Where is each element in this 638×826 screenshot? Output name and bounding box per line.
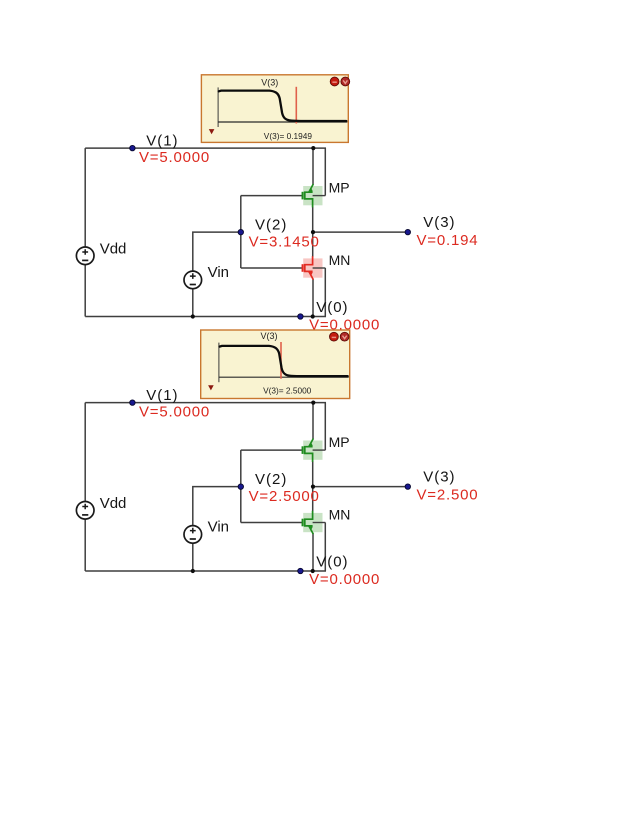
svg-text:Vdd: Vdd: [100, 240, 127, 257]
svg-text:MP: MP: [329, 180, 350, 196]
svg-text:V(3)= 2.5000: V(3)= 2.5000: [263, 386, 312, 396]
transistor MP (PMOS) c1: [303, 184, 326, 207]
wire to MP gate c1: [241, 195, 303, 197]
junction Vin bottom c2: [191, 569, 195, 573]
wire Vin to gate junction c2: [193, 487, 241, 526]
wire V(1) top rail c2: [85, 402, 326, 404]
svg-text:V(3)= 0.1949: V(3)= 0.1949: [264, 131, 313, 141]
svg-text:V(3): V(3): [423, 468, 455, 485]
plot y-axis: [218, 343, 220, 383]
junction Vin bottom c1: [191, 314, 195, 318]
plot y-axis: [217, 87, 219, 127]
wire MN source to bottom rail c1: [312, 279, 314, 317]
plot cursor line: [280, 342, 282, 379]
plot waveform curve V(3): [220, 346, 348, 376]
wire to MP gate c2: [241, 449, 303, 451]
plot x-axis: [218, 121, 347, 123]
svg-text:V=2.500: V=2.500: [417, 487, 479, 504]
wire MP drain to MN drain c2: [312, 461, 314, 511]
svg-text:V=3.1450: V=3.1450: [249, 233, 320, 250]
wire MP drain to MN drain c1: [312, 207, 314, 257]
svg-text:V(1): V(1): [146, 387, 178, 404]
plot buttons: [330, 332, 350, 341]
plot buttons: [330, 77, 349, 86]
svg-text:V(3): V(3): [261, 77, 278, 87]
wire MP bulk riser c1: [324, 148, 326, 196]
wire output to V(3) c2: [313, 486, 408, 488]
wire MN source to bottom rail c2: [312, 534, 314, 572]
svg-text:Vin: Vin: [208, 264, 229, 281]
svg-text:V(2): V(2): [255, 216, 287, 233]
wire left rail upper c2: [84, 403, 86, 502]
svg-text:V(0): V(0): [316, 554, 348, 571]
wire gate junction riser c1: [240, 196, 242, 268]
wire Vin to gate junction c1: [193, 232, 241, 271]
transistor MP (PMOS) c2: [303, 439, 326, 462]
scope plot inset 2: [201, 330, 350, 399]
plot cursor line: [295, 87, 297, 124]
wire to MN gate c1: [241, 267, 303, 269]
plot marker triangle: [209, 129, 215, 134]
svg-text:MN: MN: [329, 507, 351, 523]
svg-text:V=2.5000: V=2.5000: [249, 488, 320, 505]
svg-text:V(1): V(1): [146, 132, 178, 149]
wire to MN gate c2: [241, 522, 303, 524]
svg-text:V=0.194: V=0.194: [417, 232, 479, 249]
svg-text:V(2): V(2): [255, 471, 287, 488]
plot x-axis: [219, 376, 349, 378]
node V(3) c1: [405, 229, 410, 234]
wire V(0) bottom rail c1: [85, 316, 326, 318]
svg-text:MN: MN: [329, 252, 351, 268]
node V(2) c1: [238, 229, 243, 234]
junction output node c2: [311, 485, 315, 489]
wire V(1) top rail c1: [85, 147, 326, 149]
junction top rail c1: [311, 146, 315, 150]
wire left rail upper c1: [84, 148, 86, 247]
scope plot inset 1: [201, 75, 348, 143]
voltage source Vin: [184, 526, 202, 544]
wire gate junction riser c2: [240, 450, 242, 522]
wire MP source from top rail c1: [312, 148, 314, 185]
svg-text:Vdd: Vdd: [100, 495, 127, 512]
wire output to V(3) c1: [313, 231, 408, 233]
svg-text:MP: MP: [329, 434, 350, 450]
voltage source Vdd: [76, 247, 94, 265]
junction bottom rail c2: [311, 569, 315, 573]
plot marker triangle: [208, 385, 214, 390]
wire left rail lower c1: [84, 265, 86, 317]
node V(0) c2: [298, 568, 303, 573]
junction output node c1: [311, 230, 315, 234]
junction bottom rail c1: [311, 314, 315, 318]
svg-text:V(3): V(3): [260, 331, 277, 341]
svg-text:V(3): V(3): [423, 214, 455, 231]
node V(0) c1: [298, 314, 303, 319]
node V(3) c2: [405, 484, 410, 489]
wire left rail lower c2: [84, 519, 86, 571]
node V(2) c2: [238, 484, 243, 489]
svg-text:V=5.0000: V=5.0000: [139, 149, 210, 166]
node V(1) c2: [130, 400, 135, 405]
plot waveform curve V(3): [219, 91, 346, 121]
wire MP source from top rail c2: [312, 403, 314, 440]
transistor MN (NMOS) c2: [303, 511, 326, 534]
svg-text:Vin: Vin: [208, 518, 229, 535]
svg-text:V=5.0000: V=5.0000: [139, 404, 210, 421]
wire Vin to bottom rail c2: [192, 543, 194, 571]
wire Vin to bottom rail c1: [192, 289, 194, 317]
junction top rail c2: [311, 401, 315, 405]
wire MN bulk drop c1: [324, 268, 326, 317]
wire MN bulk drop c2: [324, 523, 326, 572]
wire MP bulk riser c2: [324, 403, 326, 451]
voltage source Vdd: [76, 502, 94, 520]
voltage source Vin: [184, 271, 202, 289]
transistor MN (NMOS) c1: [303, 256, 326, 279]
svg-text:V=0.0000: V=0.0000: [309, 571, 380, 588]
node V(1) c1: [130, 145, 135, 150]
svg-text:V(0): V(0): [316, 299, 348, 316]
wire V(0) bottom rail c2: [85, 570, 326, 572]
